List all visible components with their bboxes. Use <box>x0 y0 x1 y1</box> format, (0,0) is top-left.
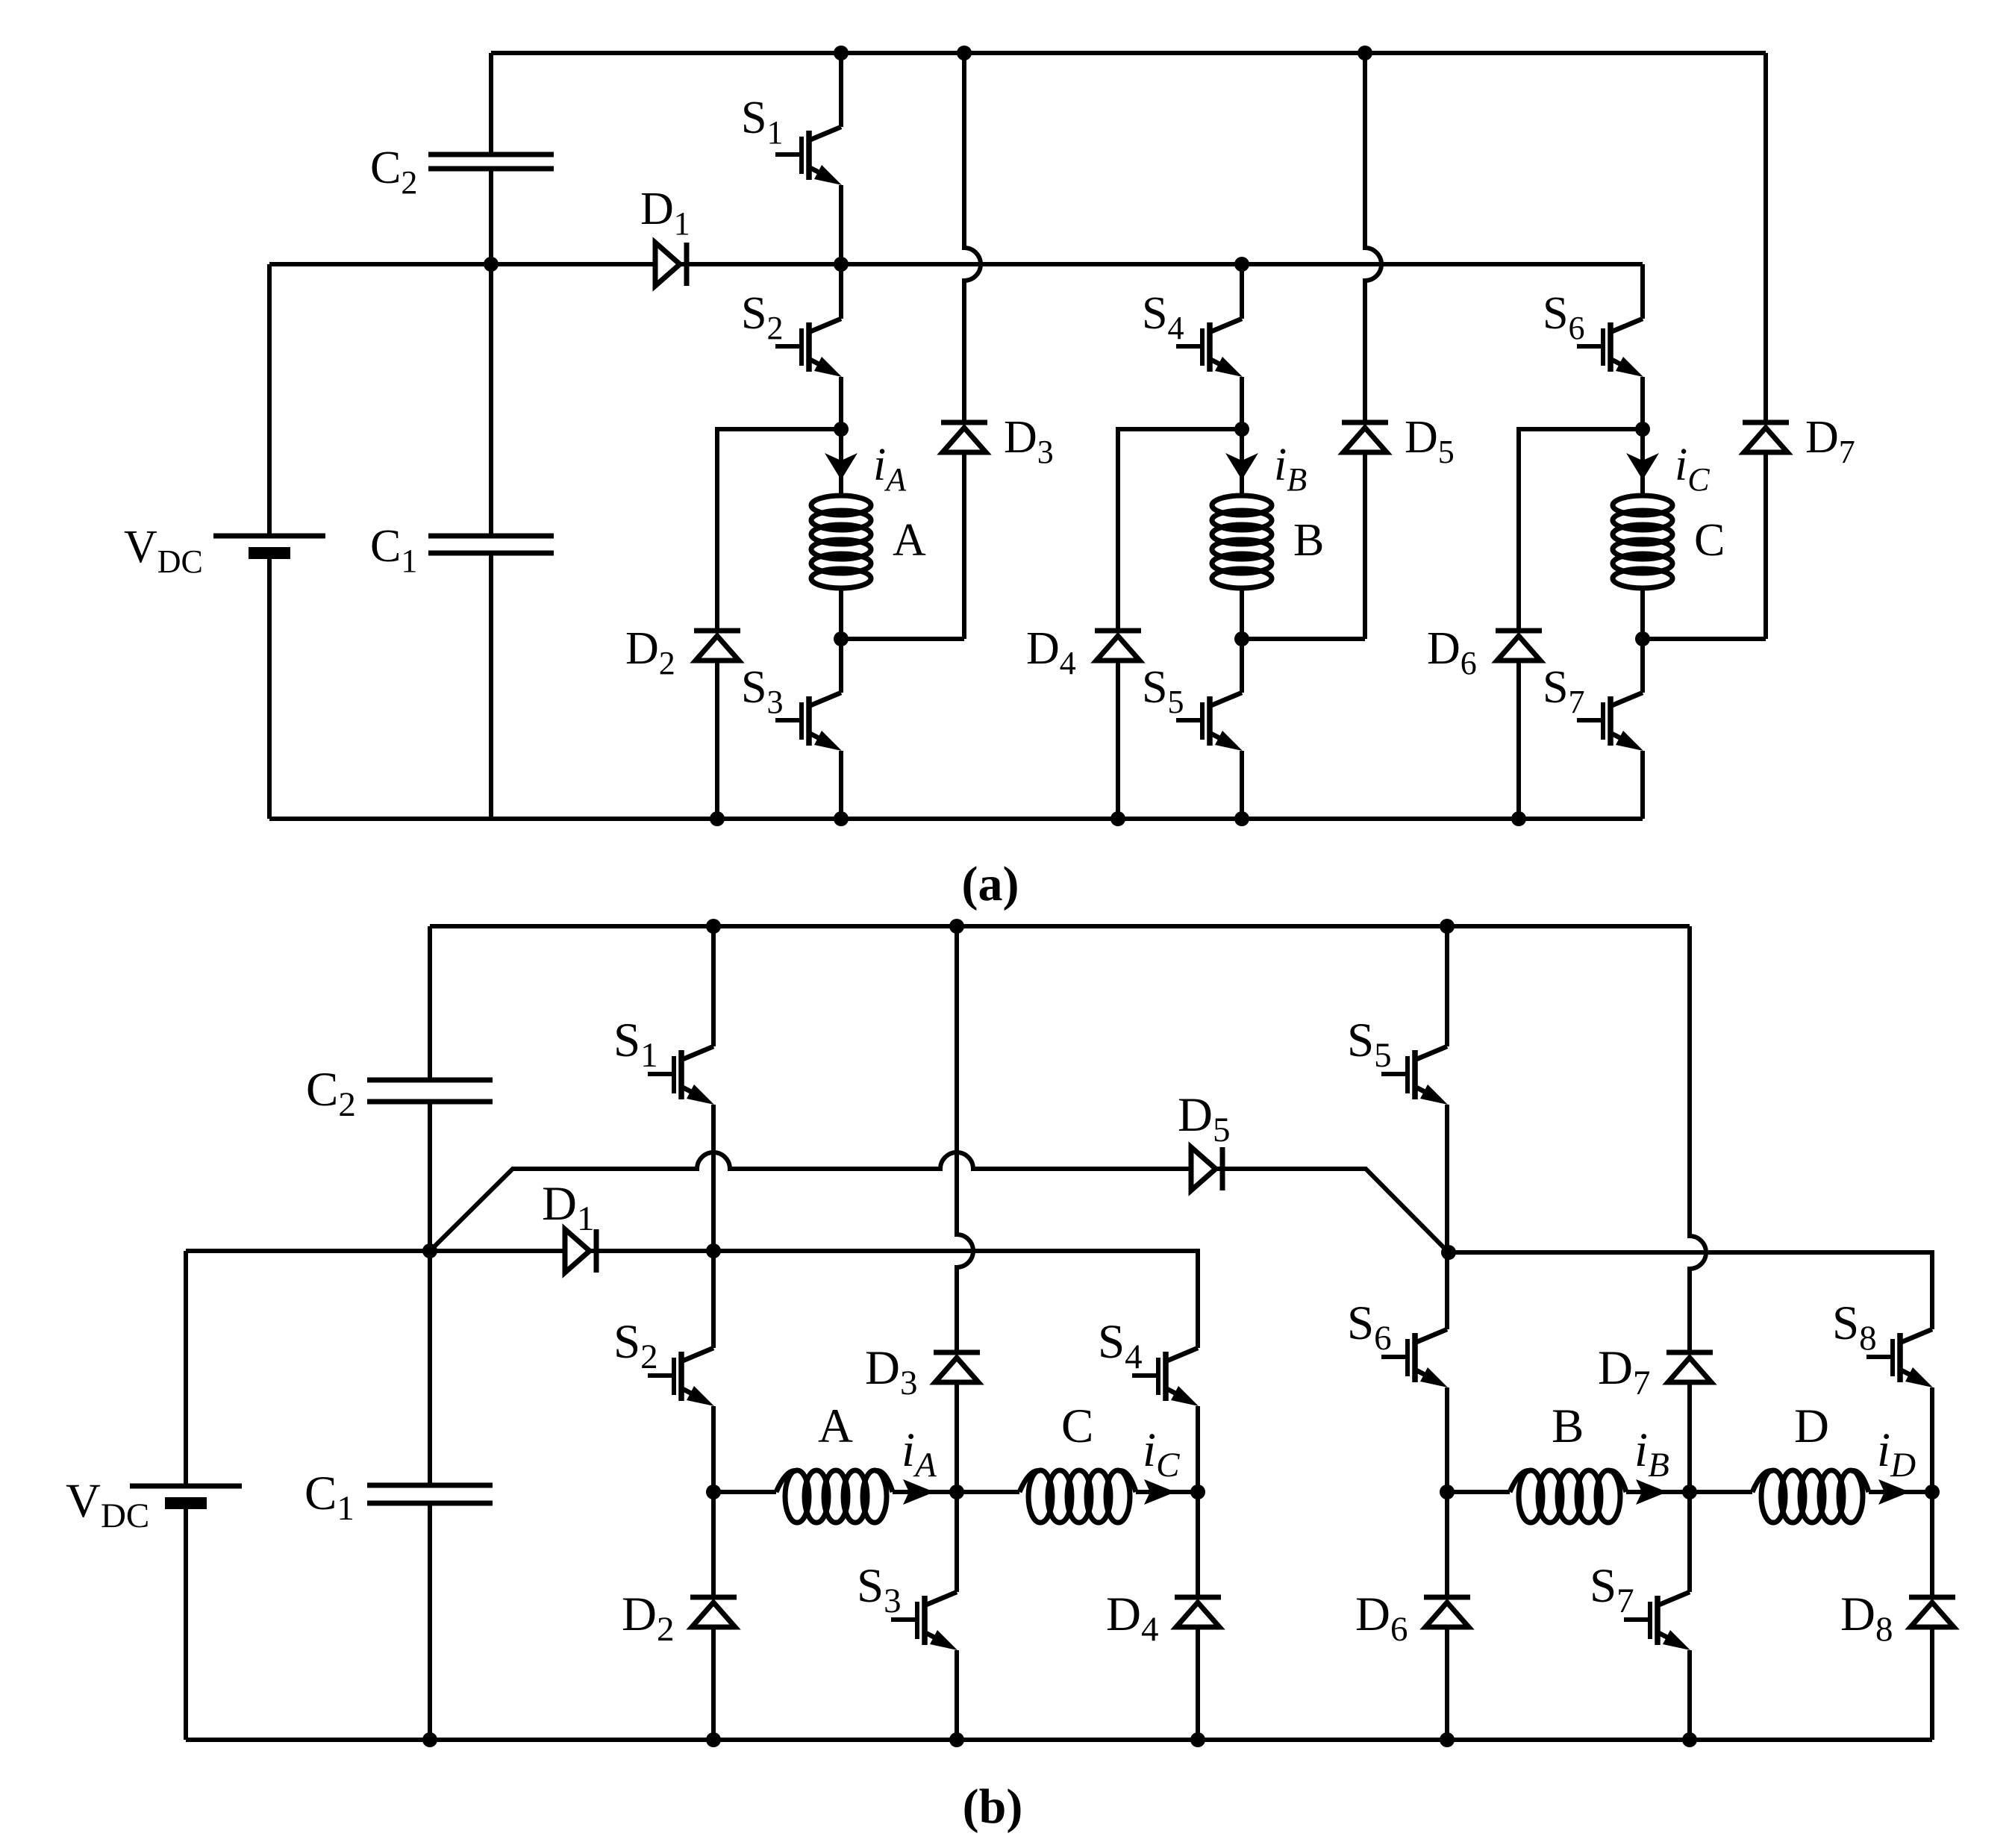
wire S1 collector (a) <box>839 53 843 127</box>
wire D4 column (b) <box>1196 1492 1200 1740</box>
label S6 (b) <box>1347 1296 1392 1358</box>
wire S2 emitter to winding node (a) <box>839 377 843 429</box>
capacitor C2 (b) <box>367 1080 493 1102</box>
inductor winding C (b) <box>1019 1470 1136 1523</box>
transistor S5 (b) <box>1381 1046 1448 1105</box>
wire S7 collector (a) <box>1640 639 1645 693</box>
wire D3 column (b) <box>957 926 973 1352</box>
caption (b) <box>963 1779 1023 1834</box>
junction bottom rail / D6 (b) <box>1440 1732 1455 1747</box>
wire D7 column (a) <box>1643 53 1766 639</box>
wire D7 to winding node (b) <box>1687 1382 1692 1492</box>
wire top rail (b) <box>430 924 1690 928</box>
svg-text:B: B <box>1293 515 1324 566</box>
diode D5 (b) <box>1191 1147 1222 1190</box>
label D5 (b) <box>1178 1088 1230 1149</box>
label S5 (b) <box>1347 1014 1392 1075</box>
inductor winding B (b) <box>1510 1470 1626 1523</box>
wire winding B right lead with arrow (b) <box>1626 1479 1690 1505</box>
wire D4 column (a) <box>1118 429 1242 819</box>
inductor winding C (a) <box>1613 496 1672 639</box>
junction bottom rail / S5 (a) <box>1234 811 1249 826</box>
diode D3 (b) <box>934 1352 980 1382</box>
wire free-wheel rail with D5 (b) <box>430 1152 1449 1252</box>
wire S1 collector (b) <box>711 926 716 1046</box>
current arrow i_C (a) <box>1626 429 1659 496</box>
wire S4 emitter (b) <box>1196 1406 1200 1492</box>
svg-text:C: C <box>1061 1399 1093 1453</box>
label S2 (a) <box>741 288 783 346</box>
svg-text:A: A <box>818 1399 853 1453</box>
junction winding C out (b) <box>1190 1485 1205 1499</box>
transistor S7 (b) <box>1624 1592 1690 1650</box>
wire D3 to winding node (b) <box>955 1382 959 1492</box>
junction top rail / S1 (b) <box>706 919 721 934</box>
junction winding A bottom (a) <box>834 631 849 646</box>
wire S7 emitter to bottom rail (a) <box>1640 751 1645 819</box>
junction winding C top (a) <box>1635 422 1650 437</box>
transistor S5 (a) <box>1176 693 1243 751</box>
label i_B (a) <box>1274 440 1307 498</box>
transistor S7 (a) <box>1577 693 1643 751</box>
label i_A (a) <box>873 440 907 498</box>
label winding B (a) <box>1293 515 1324 566</box>
label C2 (b) <box>306 1063 356 1124</box>
label D5 (a) <box>1405 412 1455 470</box>
junction winding A top (a) <box>834 422 849 437</box>
diode D5 (a) <box>1342 422 1388 452</box>
diode D4 (a) <box>1095 631 1141 661</box>
transistor S8 (b) <box>1866 1329 1933 1387</box>
transistor S2 (a) <box>775 319 842 377</box>
svg-text:A: A <box>893 515 926 566</box>
label S7 (b) <box>1590 1559 1634 1620</box>
wire winding A left lead (b) <box>713 1490 776 1494</box>
label S4 (b) <box>1098 1315 1143 1376</box>
wire S6 collector (a) <box>1640 264 1645 319</box>
junction bottom rail / D2 (b) <box>706 1732 721 1747</box>
wire S2 collector (b) <box>711 1251 716 1348</box>
diode D3 (a) <box>941 422 987 452</box>
wire S3 collector (b) <box>955 1492 959 1592</box>
transistor S4 (b) <box>1132 1348 1199 1406</box>
wire S3 emitter to bottom rail (a) <box>839 751 843 819</box>
label S3 (a) <box>741 662 783 720</box>
transistor S1 (a) <box>775 127 842 185</box>
wire S5 emitter (b) <box>1445 1105 1449 1252</box>
wire D3 column (a) <box>841 53 981 639</box>
label S8 (b) <box>1832 1296 1877 1358</box>
junction top rail / S5 (b) <box>1440 919 1455 934</box>
wire capacitor column (b) <box>428 926 432 1740</box>
label S1 (b) <box>613 1014 658 1075</box>
label D1 (a) <box>640 184 690 242</box>
diode D8 (b) <box>1909 1597 1955 1627</box>
transistor S4 (a) <box>1176 319 1243 377</box>
junction winding B in (b) <box>1440 1485 1455 1499</box>
junction winding A in (b) <box>706 1485 721 1499</box>
wire S3 collector (a) <box>839 639 843 693</box>
battery V_DC (b) leads <box>184 1251 188 1740</box>
junction winding C bottom (a) <box>1635 631 1650 646</box>
wire S1 emitter (b) <box>711 1105 716 1251</box>
wire S2 collector (a) <box>839 264 843 319</box>
label D7 (b) <box>1598 1341 1650 1402</box>
wire S6 emitter to winding node (a) <box>1640 377 1645 429</box>
label D2 (a) <box>625 623 675 681</box>
wire D6 column (a) <box>1519 429 1643 819</box>
transistor S2 (b) <box>648 1348 714 1406</box>
transistor S6 (a) <box>1577 319 1643 377</box>
junction winding B out / D in (b) <box>1682 1485 1697 1499</box>
label winding C (a) <box>1694 515 1725 566</box>
label S2 (b) <box>613 1315 658 1376</box>
wire S7 emitter (b) <box>1687 1650 1692 1740</box>
wire D8 column (b) <box>1930 1492 1934 1740</box>
wire winding A right lead with arrow (b) <box>893 1479 957 1505</box>
label winding A (b) <box>818 1399 853 1453</box>
junction top rail / S1 collector (a) <box>834 46 849 60</box>
wire S5 collector (b) <box>1445 926 1449 1046</box>
wire winding B left lead (b) <box>1447 1490 1510 1494</box>
junction winding D out (b) <box>1925 1485 1940 1499</box>
label D4 (b) <box>1106 1588 1158 1649</box>
diode D6 (b) <box>1424 1597 1470 1627</box>
wire D7 column (b) <box>1690 926 1706 1352</box>
svg-text:(b): (b) <box>963 1779 1023 1834</box>
diode D6 (a) <box>1496 631 1542 661</box>
inductor winding A (a) <box>811 496 871 639</box>
wire S6 emitter (b) <box>1445 1387 1449 1492</box>
label V_DC (a) <box>124 522 203 580</box>
junction bottom rail / D4 (a) <box>1110 811 1125 826</box>
label D6 (b) <box>1355 1588 1408 1649</box>
label current i_C (b) <box>1143 1423 1180 1485</box>
transistor S3 (b) <box>891 1592 957 1650</box>
label winding D (b) <box>1794 1399 1829 1453</box>
junction bottom rail / S7 (b) <box>1682 1732 1697 1747</box>
label C1 (a) <box>370 521 417 579</box>
diode D7 (a) <box>1743 422 1789 452</box>
wire winding C right lead with arrow (b) <box>1136 1479 1198 1505</box>
junction winding A out / C in (b) <box>949 1485 964 1499</box>
label S3 (b) <box>857 1559 902 1620</box>
label C1 (b) <box>304 1467 354 1528</box>
label D1 (b) <box>542 1177 594 1238</box>
junction bottom rail / S3 (a) <box>834 811 849 826</box>
junction bottom rail / D4 (b) <box>1190 1732 1205 1747</box>
label D3 (a) <box>1004 412 1054 470</box>
svg-text:B: B <box>1552 1399 1584 1453</box>
current arrow i_A (a) <box>825 429 857 496</box>
label D4 (a) <box>1026 623 1076 681</box>
wire S3 emitter (b) <box>955 1650 959 1740</box>
transistor S1 (b) <box>648 1046 714 1105</box>
diode D4 (b) <box>1175 1597 1221 1627</box>
svg-text:D: D <box>1794 1399 1829 1453</box>
diode D7 (b) <box>1666 1352 1713 1382</box>
battery V_DC (a) leads <box>267 264 272 819</box>
current arrow i_B (a) <box>1225 429 1258 496</box>
junction top rail / D5 (a) <box>1358 46 1372 60</box>
inductor winding A (b) <box>776 1470 893 1523</box>
wire D1 rail (b) <box>186 1251 1198 1348</box>
junction top rail / D3 (a) <box>957 46 972 60</box>
diode D1 (a) <box>655 243 687 286</box>
label S5 (a) <box>1142 662 1184 720</box>
wire winding D right lead with arrow (b) <box>1869 1479 1932 1505</box>
wire S5-S6 rail (b) <box>1449 1252 1932 1329</box>
wire S7 collector (b) <box>1687 1492 1692 1592</box>
junction S5 emitter / S6 collector (b) <box>1441 1245 1456 1260</box>
junction bottom rail / S3 (b) <box>949 1732 964 1747</box>
junction middle rail / phase A leg (a) <box>834 257 849 272</box>
label winding A (a) <box>893 515 926 566</box>
wire top rail (a) <box>491 51 1766 55</box>
label D7 (a) <box>1805 412 1855 470</box>
capacitor C1 (b) <box>367 1485 493 1503</box>
wire winding C left lead (b) <box>957 1490 1019 1494</box>
wire D2 column (a) <box>717 429 841 819</box>
wire D5 column (a) <box>1242 53 1381 639</box>
wire bottom rail (b) <box>186 1738 1932 1742</box>
junction middle rail / C2 (a) <box>484 257 499 272</box>
inductor winding B (a) <box>1212 496 1272 639</box>
wire D6 column (b) <box>1445 1492 1449 1740</box>
diode D2 (b) <box>690 1597 737 1627</box>
label C2 (a) <box>370 143 417 201</box>
label winding C (b) <box>1061 1399 1093 1453</box>
label D6 (a) <box>1427 623 1477 681</box>
diode D2 (a) <box>694 631 740 661</box>
wire S4 collector (a) <box>1240 264 1244 319</box>
junction bottom rail / C1 (b) <box>422 1732 437 1747</box>
label S1 (a) <box>741 93 783 151</box>
junction middle rail / phase B leg (a) <box>1234 257 1249 272</box>
transistor S3 (a) <box>775 693 842 751</box>
diode D1 (b) <box>565 1229 596 1273</box>
wire S6 collector (b) <box>1445 1252 1449 1329</box>
battery V_DC (b) <box>130 1486 242 1503</box>
wire bottom rail (a) <box>269 817 1643 821</box>
capacitor C2 (a) <box>428 154 554 169</box>
wire S5 emitter to bottom rail (a) <box>1240 751 1244 819</box>
junction top rail / D3 column (b) <box>949 919 964 934</box>
label current i_D (b) <box>1877 1423 1916 1485</box>
junction D1 rail / S1 emitter (b) <box>706 1243 721 1258</box>
svg-text:C: C <box>1694 515 1725 566</box>
label D3 (b) <box>865 1341 917 1402</box>
battery V_DC (a) <box>213 536 325 553</box>
capacitor C1 (a) <box>428 536 554 553</box>
label S6 (a) <box>1543 288 1584 346</box>
inductor winding D (b) <box>1752 1470 1869 1523</box>
junction D1 rail / C column (b) <box>422 1243 437 1258</box>
wire middle rail (a) <box>269 262 1643 266</box>
wire capacitor column (a) <box>489 53 493 819</box>
label V_DC (b) <box>66 1474 149 1535</box>
svg-text:(a): (a) <box>962 857 1019 911</box>
label D8 (b) <box>1840 1588 1893 1649</box>
label current i_A (b) <box>902 1423 937 1485</box>
label S7 (a) <box>1543 662 1584 720</box>
wire winding D left lead (b) <box>1690 1490 1752 1494</box>
wire S8 emitter (b) <box>1930 1387 1934 1492</box>
transistor S6 (b) <box>1381 1329 1448 1387</box>
junction bottom rail / D2 (a) <box>710 811 725 826</box>
wire S5 collector (a) <box>1240 639 1244 693</box>
junction winding B bottom (a) <box>1234 631 1249 646</box>
wire S1 emitter to middle rail (a) <box>839 185 843 264</box>
label i_C (a) <box>1675 440 1710 498</box>
caption (a) <box>962 857 1019 911</box>
label winding B (b) <box>1552 1399 1584 1453</box>
junction bottom rail / D6 (a) <box>1511 811 1526 826</box>
label current i_B (b) <box>1634 1423 1669 1485</box>
wire S2 emitter (b) <box>711 1406 716 1492</box>
wire S4 emitter to winding node (a) <box>1240 377 1244 429</box>
label D2 (b) <box>622 1588 674 1649</box>
label S4 (a) <box>1142 288 1184 346</box>
junction winding B top (a) <box>1234 422 1249 437</box>
wire D2 column (b) <box>711 1492 716 1740</box>
